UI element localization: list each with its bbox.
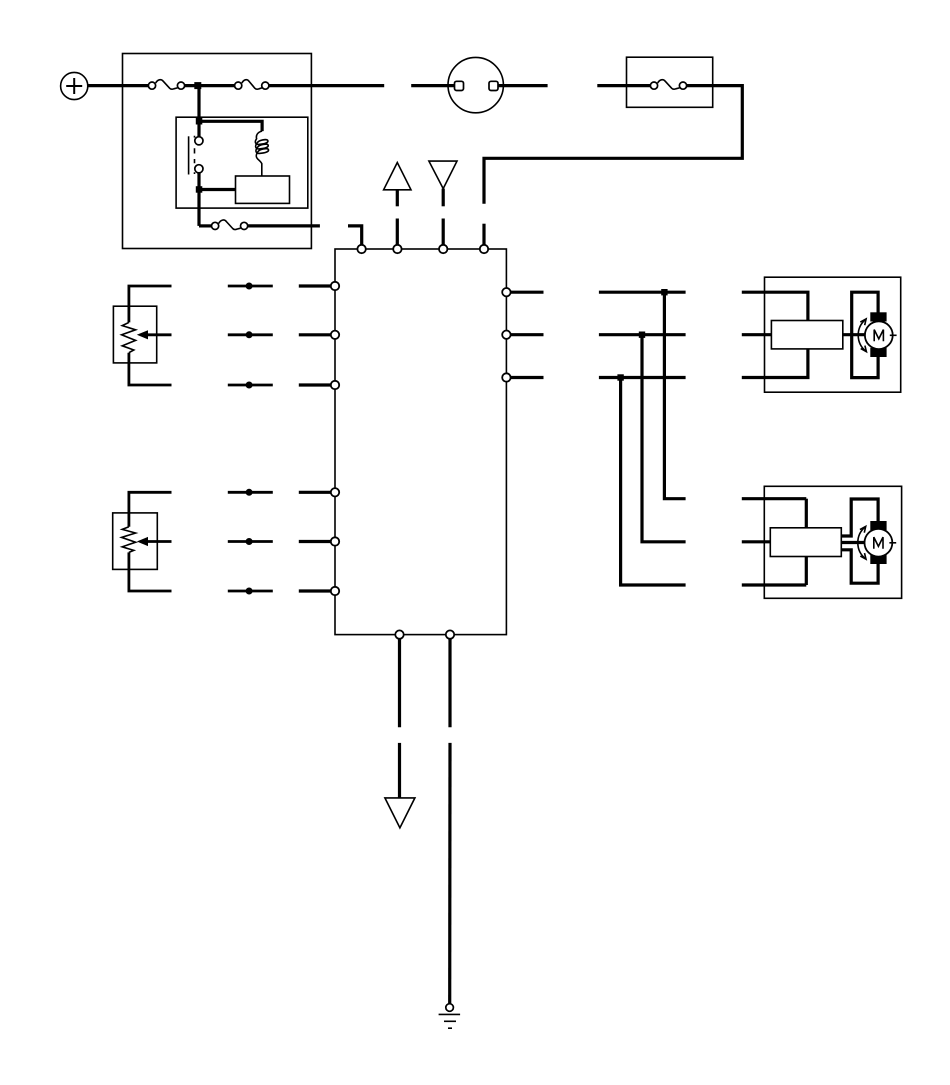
motor 1 circle M [865, 321, 897, 349]
motor assembly 2 box [764, 486, 901, 598]
relay inner box [176, 117, 308, 208]
wire junction to control unit [199, 188, 236, 191]
wire battery to fuse F1 [88, 84, 149, 87]
wire right row3 stub [511, 376, 544, 379]
inline connector C1 [448, 57, 503, 112]
wire F4 right then down then left to pin 4 drop [484, 86, 742, 204]
wire row5 to pin [299, 540, 331, 543]
wire right row1 stub [511, 291, 544, 294]
motor 2 bracket lower [841, 550, 878, 583]
motor 1 brush bottom [870, 348, 886, 357]
ECM pin T2 [393, 245, 401, 253]
wire row6 spliced segment [228, 590, 273, 593]
ECM pin B2 [446, 630, 454, 638]
wire lower row1 stub [742, 497, 807, 500]
fuse F3 [212, 220, 248, 230]
wire gap to ECM pin 3 [442, 219, 445, 245]
junction row1 [661, 289, 667, 295]
fuse box 2 [627, 57, 713, 107]
relay movable blade [188, 136, 190, 174]
motor 1 actuator unit [771, 321, 842, 349]
ECM pin L3 [331, 381, 339, 389]
relay contact bottom [195, 165, 203, 173]
sensor 2 bottom wire [129, 552, 172, 591]
wire gap to ground arrow [398, 743, 401, 798]
relay junction top [196, 118, 203, 125]
wire gap to ECM pin 2 [396, 219, 399, 245]
wire gap to ground terminal [448, 743, 451, 1004]
ECM pin L1 [331, 282, 339, 290]
wire top to inline connector [411, 84, 454, 87]
motor 2 rotation arrow [858, 526, 866, 559]
motor 1 bracket [852, 292, 878, 377]
junction row3 [617, 374, 623, 380]
motor 2 circle M [865, 529, 897, 557]
ECM pin B1 [395, 630, 403, 638]
ECM pin L4 [331, 488, 339, 496]
wire lower row2 stub [742, 540, 771, 543]
battery positive terminal [61, 72, 88, 99]
arrow symbol to other circuit (up) [384, 163, 411, 190]
splice row3 [246, 382, 253, 389]
wire row5 spliced segment [228, 540, 273, 543]
relay coil [255, 131, 268, 176]
arrow symbol from other circuit (down) [429, 161, 457, 189]
wire right row2 segment [599, 333, 686, 336]
wire hook to ECM pin 1 [348, 226, 362, 245]
sensor 1 resistor zigzag [122, 322, 136, 352]
throttle sensor 1 box [113, 306, 156, 363]
sensor 1 wiper arrow [137, 330, 172, 339]
wire row1 to pin [299, 284, 331, 287]
relay control unit [236, 176, 290, 203]
motor assembly 1 box [765, 277, 901, 392]
relay coil feed wire [199, 121, 262, 131]
fuse F4 [650, 80, 686, 90]
wire arrow to gap pin 3 [442, 189, 445, 207]
relay dashed actuation line [194, 136, 196, 175]
motor 1 wire row3 [742, 349, 808, 378]
ECM/PCM control module box [335, 249, 506, 635]
sensor 1 top wire [129, 286, 172, 322]
wire crossover v1 [664, 292, 685, 499]
wire right row3 segment [599, 376, 686, 379]
motor 1 output wire [843, 333, 865, 336]
wire crossover v2 [642, 335, 686, 542]
motor 2 brush top [870, 521, 886, 530]
fuse F1 [148, 80, 184, 90]
motor 2 wire row3 rise [805, 557, 808, 586]
wire arrow to gap pin 2 [396, 190, 399, 207]
wire contact bottom to junction [197, 173, 200, 226]
junction row2 [639, 332, 645, 338]
wire row6 to pin [299, 589, 331, 592]
wire lower row3 stub [742, 583, 807, 586]
wire crossover v3 [621, 378, 686, 586]
splice row5 [246, 538, 253, 545]
wire connector to gap [498, 84, 548, 87]
wire down to fuse F3 [199, 224, 212, 227]
wire ECM pin B1 down [398, 639, 401, 727]
wire drop to ECM pin 4 [482, 224, 485, 245]
ECM pin T1 [357, 245, 365, 253]
under-hood fuse/relay box [123, 54, 312, 249]
ECM pin L5 [331, 537, 339, 545]
motor 2 bracket upper [841, 499, 878, 536]
motor 2 actuator unit [770, 528, 841, 557]
splice row1 [246, 283, 253, 290]
wire junction down to relay [197, 86, 200, 137]
motor 1 wire row1 [742, 292, 808, 320]
wire row4 spliced segment [228, 491, 273, 494]
ECM pin T3 [439, 245, 447, 253]
wire ECM pin B2 down [448, 639, 451, 727]
fuse F2 [235, 80, 269, 90]
motor 1 brush top [870, 312, 886, 321]
ground symbol [439, 1014, 461, 1028]
ECM pin R1 [502, 288, 510, 296]
motor 1 rotation arrow [858, 319, 866, 352]
ground terminal ring [446, 1004, 454, 1012]
wire row3 spliced segment [228, 384, 273, 387]
motor 2 brush bottom [870, 555, 886, 564]
motor 2 wire row1 drop [805, 499, 808, 528]
splice row6 [246, 588, 253, 595]
splice row4 [246, 489, 253, 496]
ECM pin L2 [331, 331, 339, 339]
wire row4 to pin [299, 491, 331, 494]
motor 2 output wire [841, 541, 864, 544]
relay contact top [195, 137, 203, 145]
sensor 2 resistor zigzag [122, 527, 136, 553]
wire row2 to pin [299, 333, 331, 336]
wire row1 spliced segment [228, 285, 273, 288]
ECM pin R2 [502, 331, 510, 339]
ECM pin T4 [480, 245, 488, 253]
ground arrow symbol G101 [385, 798, 415, 828]
wire row2 spliced segment [228, 333, 273, 336]
splice row2 [246, 331, 253, 338]
sensor 1 bottom wire [129, 353, 172, 385]
wire F3 to connector gap [248, 224, 320, 227]
relay junction bottom [196, 186, 203, 193]
wire right row2 stub [511, 333, 544, 336]
sensor 2 top wire [129, 492, 172, 527]
wire right row1 segment [599, 291, 686, 294]
throttle sensor 2 box [113, 513, 158, 570]
wire gap to fuse box 2 [597, 84, 650, 87]
wire F1 to junction [185, 84, 235, 87]
wire row3 to pin [299, 383, 331, 386]
junction battery feed [194, 82, 201, 89]
motor 1 wire row2 [742, 333, 772, 336]
ECM pin L6 [331, 587, 339, 595]
sensor 2 wiper arrow [137, 537, 172, 546]
ECM pin R3 [502, 373, 510, 381]
wire F2 to connector gap [269, 84, 384, 87]
